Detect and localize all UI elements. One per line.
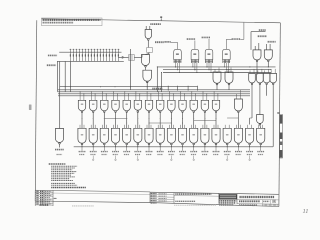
- node: bottom hatch cells: [262, 204, 264, 206]
- node: row2 label second line: [79, 154, 85, 156]
- wire: [148, 147, 150, 151]
- node: row2 label 15: [235, 151, 242, 153]
- node: signature row line: [150, 198, 174, 200]
- wire: [272, 85, 274, 147]
- wire: [59, 61, 61, 128]
- node: notes line: [51, 172, 74, 174]
- wire: [81, 112, 83, 128]
- node: row2 label second line: [135, 154, 141, 156]
- wire: [226, 145, 228, 147]
- wire: [159, 112, 161, 128]
- wire: connector stub: [137, 156, 139, 159]
- wire: [237, 145, 239, 147]
- diode D18 (ladder output): [118, 56, 128, 58]
- op-amp U41: row2 NAND: [246, 128, 254, 143]
- op-amp U15: row1 NAND: [123, 100, 130, 110]
- wire: [179, 63, 181, 73]
- node: signature cell text: [151, 197, 157, 199]
- resistor pack RP4: [223, 49, 231, 59]
- op-amp U12: row1 NAND: [90, 100, 97, 111]
- op-amp U42: row2 NAND: [257, 128, 265, 143]
- wire: sheet top border: [42, 19, 281, 23]
- node: row2 label 17: [257, 151, 264, 153]
- op-amp U24: gate right: [234, 99, 242, 111]
- node: right margin dark strip: [280, 115, 283, 159]
- op-amp U34: row2 NAND: [167, 128, 175, 143]
- wire: ladder top rail: [59, 51, 121, 53]
- node: pack label 4: [232, 38, 241, 40]
- wire: [145, 67, 147, 70]
- wire: connector stub: [170, 156, 172, 159]
- wire: bottom collector line: [74, 146, 273, 148]
- wire: [182, 145, 184, 147]
- wire: [115, 147, 117, 151]
- op-amp U11: middle row gate: [270, 73, 277, 83]
- wire: [148, 52, 150, 53]
- op-amp U32: row2 NAND: [145, 128, 153, 143]
- wire: [204, 147, 206, 151]
- wire: [177, 86, 179, 91]
- node: title block verticals: [149, 192, 151, 202]
- wire: sheet bottom border: [35, 201, 279, 207]
- op-amp U13: row1 NAND: [101, 100, 108, 111]
- wire: [249, 147, 251, 151]
- wire: [223, 63, 225, 67]
- op-amp U27: row2 NAND: [89, 128, 97, 143]
- wire: [194, 41, 196, 50]
- wire: [126, 112, 128, 128]
- node: ladder left label PWR: [48, 54, 57, 56]
- wire: [105, 118, 128, 120]
- wire: upper bus 1: [58, 89, 250, 91]
- wire: [267, 62, 269, 67]
- wire: [81, 145, 83, 147]
- op-amp U14: row1 NAND: [112, 100, 119, 110]
- wire: [137, 145, 139, 147]
- node: row2 label 14: [224, 151, 231, 153]
- op-amp U17: row1 NAND: [145, 100, 152, 110]
- wire: [146, 82, 148, 90]
- node: drawing number: [239, 200, 260, 202]
- wire: [187, 86, 189, 91]
- node: row2 label 6: [134, 151, 141, 153]
- wire: [204, 145, 206, 147]
- node: notes box text line 1: [43, 19, 101, 21]
- node: signature cell text: [151, 200, 157, 202]
- wire: [170, 145, 172, 147]
- wire: [170, 112, 172, 128]
- node: row2 label second line: [236, 154, 242, 156]
- diode D6: [84, 50, 86, 62]
- wire: strip top line: [35, 190, 150, 192]
- node: row2 label second line: [191, 154, 197, 156]
- node: row2 label second line: [157, 154, 163, 156]
- op-amp U22: row1 NAND: [201, 100, 208, 111]
- node: notes line: [51, 176, 75, 178]
- resistor R2: [147, 48, 153, 53]
- wire: mid bus 2: [163, 69, 271, 71]
- wire: [227, 63, 229, 73]
- wire: [103, 145, 105, 147]
- diode D9: [93, 50, 95, 62]
- op-amp U38: row2 NAND: [212, 128, 220, 143]
- node: row2 label second line: [180, 154, 186, 156]
- wire: [226, 147, 228, 151]
- wire: [193, 112, 195, 128]
- wire: upper bus 2: [58, 91, 250, 93]
- diode D14: [108, 50, 110, 62]
- node: signature row line: [150, 193, 174, 195]
- wire: [92, 112, 94, 128]
- node: row2 label 7: [146, 151, 153, 153]
- op-amp U26: row2 NAND: [78, 128, 86, 143]
- wire: [57, 61, 59, 91]
- node: label +5V H: [259, 29, 266, 31]
- node: revision table bottom row: [40, 204, 49, 206]
- wire: [215, 112, 217, 128]
- wire: [251, 85, 253, 118]
- node: row2 label second line: [258, 154, 264, 156]
- wire: [215, 145, 217, 147]
- node: notes line: [51, 178, 69, 180]
- op-amp U1: gate G1 top: [150, 23, 161, 25]
- wire: [159, 145, 161, 147]
- wire: off-page feed at x244: [243, 23, 245, 40]
- wire: [226, 38, 231, 40]
- wire: [92, 147, 94, 151]
- node: row2 label 16: [246, 151, 253, 153]
- wire: [194, 63, 196, 70]
- wire: [193, 147, 195, 151]
- wire: [206, 63, 208, 67]
- op-amp U10: middle row gate: [263, 73, 270, 83]
- wire: [159, 147, 161, 151]
- wire: connector stub: [249, 156, 251, 159]
- node: label BUS SEL H: [155, 41, 164, 43]
- op-amp U30: row2 NAND: [123, 128, 131, 143]
- wire: strip second line: [35, 193, 150, 195]
- node: sheet row text: [239, 204, 257, 206]
- wire: [149, 122, 171, 124]
- diode D12: [102, 50, 104, 62]
- wire: [161, 73, 163, 92]
- wire: [260, 145, 262, 147]
- op-amp U43: lone left gate: [55, 129, 63, 143]
- node: notes line: [51, 167, 75, 169]
- wire: [70, 61, 72, 91]
- wire: [156, 67, 158, 92]
- wire: sheet right border: [279, 23, 280, 207]
- wire: [210, 63, 212, 73]
- node: row2 label second line: [146, 154, 152, 156]
- wire: [251, 31, 266, 33]
- wire: connector stub: [193, 156, 195, 159]
- svg-text:11: 11: [303, 208, 309, 215]
- wire: [137, 112, 139, 128]
- node: row2 label 1: [79, 151, 86, 153]
- wire: [64, 61, 66, 91]
- node: row2 label second line: [124, 154, 130, 156]
- op-amp U3: gate G3: [143, 70, 152, 81]
- op-amp U5: gate: [264, 50, 272, 60]
- wire: [256, 62, 258, 75]
- node: row2 label second line: [202, 154, 208, 156]
- node: practice header text: [175, 193, 211, 195]
- wire: [192, 63, 194, 67]
- wire: [197, 86, 199, 91]
- diode D11: [99, 50, 101, 62]
- node: row2 label second line: [224, 154, 230, 156]
- op-amp U29: row2 NAND: [111, 128, 119, 143]
- resistor pack RP2: [191, 49, 199, 59]
- node: revision table: [34, 190, 36, 206]
- op-amp U2: gate G2: [142, 55, 150, 66]
- node: row2 label second line: [169, 154, 175, 156]
- node: label SELECT: [268, 41, 276, 43]
- node: notes box text line 2: [43, 22, 74, 24]
- node: row2 label 9: [168, 151, 175, 153]
- wire: [137, 147, 139, 151]
- diode D5: [81, 50, 83, 62]
- wire: [216, 85, 218, 90]
- wire: sheet left border: [35, 20, 37, 201]
- node: logo sub text rows: [219, 200, 236, 202]
- node: label KBD SEL H: [258, 35, 267, 37]
- node: row2 label 3: [101, 151, 108, 153]
- node: row2 label second line: [213, 154, 219, 156]
- node: notes line: [51, 171, 76, 173]
- node: pack label 1: [165, 41, 171, 43]
- node: row2 label second line: [113, 154, 119, 156]
- wire: mid bus 1: [157, 66, 275, 68]
- op-amp U37: row2 NAND: [201, 128, 209, 143]
- node: pack label 2: [187, 38, 195, 40]
- diode D17: [117, 50, 119, 62]
- wire: upper bus 4: [58, 95, 250, 97]
- wire: [228, 85, 230, 90]
- wire: upper bus 3: [58, 93, 250, 95]
- wire: [260, 147, 262, 151]
- node: signature row line: [150, 200, 174, 202]
- wire: [266, 85, 268, 96]
- wire: [171, 41, 178, 43]
- node: row2 label 10: [179, 151, 186, 153]
- node: signature cell text: [151, 202, 157, 204]
- wire: [182, 112, 184, 128]
- wire: [103, 112, 105, 128]
- op-amp U25: inverter w/ bubble: [257, 115, 264, 124]
- wire: [204, 112, 206, 128]
- op-amp U18: row1 NAND: [157, 100, 164, 110]
- op-amp U28: row2 NAND: [100, 128, 108, 143]
- op-amp U36: row2 NAND: [190, 128, 198, 143]
- node: row2 label 13: [213, 151, 220, 153]
- wire: [115, 145, 117, 147]
- node: lone gate label second line: [57, 154, 63, 156]
- wire: [194, 120, 216, 122]
- wire: [208, 39, 210, 49]
- node: row2 label 4: [112, 151, 119, 153]
- node: practice small text: [175, 200, 195, 202]
- op-amp U16: row1 NAND: [134, 100, 141, 110]
- node: footer faint dots right: [174, 204, 216, 206]
- node: notes box outline: [42, 18, 103, 26]
- wire: [175, 63, 177, 67]
- op-amp U23: row1 NAND: [212, 100, 219, 110]
- node: zone tick 4: [160, 18, 162, 21]
- node: notes ref line 2: [51, 184, 77, 186]
- wire: long routing line y86.7: [59, 86, 197, 88]
- op-amp U21: row1 NAND: [190, 100, 197, 110]
- node: DEC logo block: [219, 194, 237, 199]
- op-amp U39: row2 NAND: [223, 128, 231, 143]
- op-amp U33: row2 NAND: [156, 128, 164, 143]
- wire: [115, 112, 117, 128]
- wire: [81, 147, 83, 151]
- node: signature cell text: [151, 193, 157, 195]
- op-amp U35: row2 NAND: [178, 128, 186, 143]
- op-amp U7: middle row gate: [225, 72, 233, 83]
- op-amp U20: row1 NAND: [179, 100, 186, 110]
- wire: [208, 63, 210, 70]
- wire: connector stub: [92, 156, 94, 159]
- wire: [167, 86, 169, 91]
- diode D16: [114, 50, 116, 62]
- wire: [196, 63, 198, 73]
- diode D3: [75, 50, 77, 62]
- node: row2 label 5: [123, 151, 130, 153]
- wire: [225, 63, 227, 70]
- wire: connector stub: [115, 156, 117, 159]
- wire: [92, 145, 94, 147]
- node: row2 label second line: [90, 154, 96, 156]
- wire: [130, 49, 132, 90]
- wire: mid bus 3: [163, 72, 271, 74]
- node: ladder left label GND: [47, 64, 56, 66]
- diode D2: [72, 50, 74, 62]
- node: notes line: [51, 174, 71, 176]
- wire: [259, 85, 261, 115]
- node: signature row line: [150, 196, 174, 198]
- node: notes header: [49, 163, 66, 165]
- wire: [215, 147, 217, 151]
- op-amp U4: gate: [253, 50, 261, 60]
- resistor pack RP1: [174, 49, 182, 59]
- wire: [249, 145, 251, 147]
- diode D8: [90, 50, 92, 62]
- node: signature cell text: [151, 195, 157, 197]
- op-amp U31: row2 NAND: [134, 128, 142, 142]
- wire: [126, 145, 128, 147]
- wire: [148, 145, 150, 147]
- wire: [182, 147, 184, 151]
- wire: [170, 147, 172, 151]
- op-amp U6: middle row gate: [213, 72, 221, 83]
- resistor pack RP3: [205, 49, 213, 59]
- wire: [148, 112, 150, 128]
- op-amp U9: middle row gate: [257, 73, 264, 83]
- node: notes bottom line: [51, 186, 86, 188]
- node: row2 label second line: [102, 154, 108, 156]
- node: rev cell: [273, 200, 276, 203]
- wire: [103, 147, 105, 151]
- node: row2 label 8: [157, 151, 164, 153]
- wire: [177, 63, 179, 70]
- node: notes line: [51, 169, 72, 171]
- node: footer faint dots left: [72, 205, 94, 207]
- diode D1: [69, 50, 71, 62]
- node: left margin zone mark D: [29, 105, 32, 111]
- wire: [147, 40, 149, 47]
- op-amp U40: row2 NAND: [234, 128, 242, 143]
- diode D4: [78, 50, 80, 62]
- wire: [193, 145, 195, 147]
- op-amp U8: middle row gate: [249, 73, 256, 83]
- wire: [227, 117, 238, 119]
- wire: connector stub: [226, 156, 228, 159]
- wire: ladder bottom rail: [57, 60, 124, 62]
- wire: [126, 147, 128, 151]
- diode D7: [87, 50, 89, 62]
- wire: branch label: [152, 88, 162, 90]
- node: pack label 3: [202, 36, 210, 38]
- node: row2 label 12: [202, 151, 209, 153]
- diode D13: [105, 50, 107, 62]
- node: row2 label 11: [190, 151, 197, 153]
- diode D10: [96, 50, 98, 62]
- node: notes line: [51, 165, 77, 167]
- op-amp U11: row1 NAND: [78, 100, 85, 110]
- resistor R1: [129, 55, 135, 61]
- diode D15: [111, 50, 113, 62]
- node: row2 label second line: [247, 154, 253, 156]
- wire: [237, 147, 239, 151]
- node: row2 label 2: [90, 151, 97, 153]
- node: drawing title text: [240, 196, 275, 198]
- node: notes line: [51, 179, 73, 181]
- node: lone gate label: [55, 149, 64, 151]
- op-amp U19: row1 NAND: [168, 100, 175, 111]
- wire: [134, 56, 142, 58]
- node: notes ref line 1: [51, 182, 75, 184]
- node: title block top edge: [150, 192, 279, 194]
